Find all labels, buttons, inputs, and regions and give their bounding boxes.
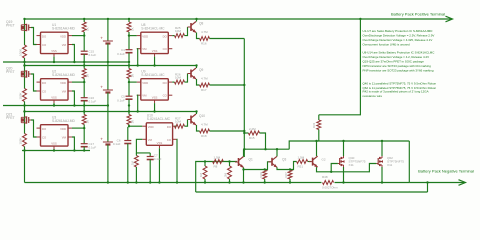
- svg-text:VDD: VDD: [142, 34, 148, 38]
- wire gate line to Q62: [331, 164, 376, 172]
- wire Q40 source: [343, 167, 345, 183]
- wire pack bottom rail: [25, 182, 410, 184]
- resistor R15 2.2M: [244, 132, 248, 134]
- svg-text:R42 is made of 3 paralleled pi: R42 is made of 3 paralleled pieces of 2'…: [363, 90, 429, 94]
- capacitor C3 0.1uF: [81, 143, 88, 145]
- svg-text:+: +: [100, 36, 103, 41]
- wire VM U9 net: [136, 95, 139, 111]
- svg-text:0.1uF: 0.1uF: [113, 142, 121, 146]
- svg-text:0.1uF: 0.1uF: [89, 100, 97, 104]
- wire emitter net to bus Q10: [210, 130, 245, 132]
- svg-text:0.0027Ohm: 0.0027Ohm: [322, 186, 338, 190]
- pin DO U1: [37, 35, 41, 37]
- wire Q1 collector to bus: [243, 149, 245, 156]
- svg-text:0.1uF: 0.1uF: [117, 52, 125, 56]
- pin DO U10: [173, 125, 177, 127]
- wire base jog Q8: [185, 27, 188, 36]
- resistor R31 gate pulldown 100K: [23, 45, 27, 58]
- svg-text:resistance wire: resistance wire: [363, 94, 383, 98]
- wire VDD node U1: [83, 32, 85, 36]
- pin VM U8: [137, 48, 141, 50]
- wire rail2 step join: [24, 62, 26, 66]
- svg-text:VDD: VDD: [148, 125, 154, 129]
- resistor R19 1M: [264, 168, 266, 170]
- svg-text:Overcurrent function (VM) is u: Overcurrent function (VM) is unused: [363, 43, 411, 47]
- pin VDD U1: [68, 35, 72, 37]
- pin CO U10: [173, 138, 177, 140]
- svg-text:1.5M: 1.5M: [298, 156, 305, 160]
- wire DO U10 to base resistor: [175, 125, 177, 127]
- wire DO U9 to base resistor: [172, 81, 174, 83]
- node rail3 right join: [23, 110, 25, 112]
- svg-text:1K: 1K: [130, 74, 134, 78]
- resistor R18 emitter 4.7M: [200, 129, 210, 133]
- wire rail3 step join: [24, 106, 26, 112]
- wire Q62 source: [381, 167, 383, 183]
- svg-text:4.7M: 4.7M: [201, 122, 208, 126]
- wire step to mosfet drain rail: [289, 141, 409, 149]
- svg-text:10M: 10M: [175, 76, 181, 80]
- op-amp U8 protection IC S-8241: [141, 32, 169, 53]
- svg-text:10M: 10M: [175, 120, 181, 124]
- wire VM U8 net: [136, 49, 139, 66]
- wire rail2 left segment: [3, 61, 130, 63]
- wire left drop to bottom rail: [24, 151, 26, 183]
- svg-text:+: +: [100, 85, 103, 90]
- wire Q1 emitter down: [243, 168, 245, 183]
- wire VDD node to cap U3: [83, 128, 85, 144]
- resistor R23 base 10M: [175, 124, 185, 128]
- op-amp U2 protection IC S-8261: [41, 79, 69, 100]
- pin VSS U8: [154, 54, 156, 57]
- wire VM U1 to rail: [72, 45, 74, 63]
- arrow battery pack negative terminal: [409, 182, 464, 184]
- svg-text:R18: R18: [201, 134, 207, 138]
- wire cap C2 to rail: [83, 101, 85, 106]
- svg-text:1K: 1K: [86, 120, 90, 124]
- resistor R3 VDD filter 1K: [83, 112, 85, 115]
- wire divider column join row3: [83, 106, 85, 112]
- wire to gate driver base: [290, 162, 297, 170]
- svg-text:2M: 2M: [224, 172, 228, 177]
- pin VDD U2: [68, 81, 72, 83]
- wire VDD node U10: [128, 125, 130, 127]
- svg-text:VM: VM: [62, 90, 67, 94]
- wire CO U10 net: [176, 139, 178, 182]
- transistor Q8 NPN: [190, 23, 192, 31]
- svg-text:X11: X11: [349, 163, 355, 167]
- wire rail2 right segment: [25, 65, 198, 67]
- resistor R23 VM filter: [134, 156, 138, 168]
- svg-text:U1-U7 are Seiko Battery Protec: U1-U7 are Seiko Battery Protection IC S-…: [363, 29, 433, 33]
- wire Q1 emitter branch: [244, 169, 265, 171]
- svg-text:4.7M: 4.7M: [201, 30, 208, 34]
- svg-text:100K: 100K: [19, 49, 23, 56]
- svg-text:VSS: VSS: [157, 141, 163, 145]
- wire driver collector line: [244, 148, 289, 150]
- wire emitter net to bus Q8: [210, 38, 245, 40]
- wire drain rail down to negative terminal: [408, 141, 410, 183]
- svg-text:10M: 10M: [175, 29, 181, 33]
- wire Q40 gate feed: [331, 164, 338, 172]
- wire to Q3 base: [265, 162, 271, 170]
- wire VSS U9 to rail: [154, 103, 156, 111]
- pin DO U2: [37, 81, 41, 83]
- node bus R15 tap: [243, 132, 245, 134]
- wire Q40 drain: [343, 141, 345, 156]
- svg-text:Q9: Q9: [199, 68, 203, 72]
- svg-text:R51: R51: [298, 164, 304, 168]
- wire PFET source stub Q19: [24, 19, 26, 32]
- transistor Q9 NPN: [190, 70, 192, 78]
- wire Q3 collector: [276, 149, 278, 156]
- transistor Q19 PFET: [26, 24, 28, 31]
- svg-text:R48: R48: [322, 175, 328, 179]
- wire divider column join row2: [83, 62, 85, 66]
- svg-text:R27: R27: [284, 172, 288, 178]
- transistor Q10 NPN: [190, 116, 192, 124]
- wire Q2 collector to drain rail: [316, 141, 318, 156]
- battery B3 cell: [107, 106, 109, 143]
- arrow battery pack positive terminal: [446, 16, 453, 22]
- wire base jog Q9: [185, 74, 188, 83]
- svg-text:+: +: [100, 137, 103, 142]
- svg-text:Q8: Q8: [199, 21, 203, 25]
- wire VSS U10 to rail: [158, 148, 160, 182]
- pin VM U10: [142, 138, 146, 140]
- wire divider block feed: [196, 162, 237, 193]
- svg-text:VDD: VDD: [60, 34, 66, 38]
- wire cap C3 to rail: [83, 147, 85, 151]
- svg-text:1K: 1K: [86, 74, 90, 78]
- svg-text:R19: R19: [259, 172, 263, 178]
- resistor R48 shunt 0.0027Ohm: [322, 180, 335, 186]
- svg-text:G2: G2: [322, 157, 326, 161]
- wire emitter Q8: [197, 33, 200, 39]
- wire pulldown to rail: [24, 102, 26, 106]
- svg-text:Q3: Q3: [282, 158, 286, 162]
- svg-text:X11: X11: [387, 163, 393, 167]
- svg-text:VDD: VDD: [60, 81, 66, 85]
- wire sense bus vertical: [243, 39, 245, 158]
- svg-text:R15: R15: [249, 136, 255, 140]
- svg-text:0.1uF: 0.1uF: [117, 98, 125, 102]
- svg-text:0.1uF: 0.1uF: [89, 53, 97, 57]
- svg-text:0.1uF: 0.1uF: [89, 146, 97, 150]
- wire pack positive rail: [25, 18, 453, 20]
- wire Q3 emitter: [277, 167, 290, 169]
- wire PFET gate net Q19: [31, 28, 37, 45]
- svg-text:Q1: Q1: [249, 158, 253, 162]
- svg-text:NPN transistor are SOT23 packa: NPN transistor are SOT23 package with t0…: [363, 64, 432, 68]
- pin CO U8: [168, 48, 172, 50]
- resistor R22 base 10M: [175, 80, 185, 84]
- wire collector Q9 to rail: [196, 66, 198, 69]
- wire emitter net to bus Q9: [210, 84, 245, 86]
- svg-text:4.7M: 4.7M: [201, 76, 208, 80]
- wire cap C1 to rail: [83, 54, 85, 62]
- wire pulldown to rail: [24, 147, 26, 151]
- pin DO U9: [168, 81, 172, 83]
- svg-text:S-8241ACL-MC: S-8241ACL-MC: [147, 117, 171, 121]
- svg-text:VM: VM: [142, 94, 147, 98]
- svg-text:PNP transistor are SOT23 packa: PNP transistor are SOT23 package with 3Y…: [363, 69, 434, 73]
- wire return jog to terminal: [427, 183, 429, 193]
- wire VSS U1 to rail: [53, 57, 55, 62]
- svg-text:PFET: PFET: [6, 70, 15, 74]
- svg-text:VSS: VSS: [152, 96, 158, 100]
- capacitor C2 0.1uF: [81, 97, 88, 99]
- svg-text:1K: 1K: [130, 120, 134, 124]
- resistor R12 VDD filter 1K (second IC): [128, 66, 130, 69]
- svg-text:1.5M: 1.5M: [214, 156, 221, 160]
- wire VM U2 to rail: [72, 91, 74, 106]
- wire PFET source stub Q21: [24, 112, 26, 125]
- op-amp U1 protection IC S-8261: [41, 32, 69, 53]
- wire VDD node U2: [83, 79, 85, 83]
- svg-text:S-8241ACL-MC: S-8241ACL-MC: [141, 73, 165, 77]
- wire base jog Q10: [185, 120, 188, 127]
- svg-text:1K: 1K: [86, 27, 90, 31]
- capacitor C11 0.1uF (second IC): [128, 36, 130, 50]
- op-amp U3 protection IC S-8261: [41, 125, 69, 146]
- resistor R21 base 10M: [175, 34, 185, 38]
- wire VSS U8 to rail: [154, 57, 156, 66]
- wire emitter Q10: [197, 125, 200, 131]
- svg-text:0.1uF: 0.1uF: [154, 157, 162, 161]
- pin DO U8: [168, 35, 172, 37]
- svg-text:PFET: PFET: [6, 23, 15, 27]
- wire base R to Q2: [308, 161, 311, 163]
- wire R15 to gate line: [260, 133, 266, 149]
- wire return line lower: [196, 191, 428, 193]
- transistor Q20 PFET: [26, 70, 28, 77]
- pin VSS U3: [53, 146, 55, 149]
- pin VM U3: [68, 136, 72, 138]
- svg-text:1M: 1M: [131, 160, 135, 165]
- capacitor C12 0.1uF (second IC): [128, 82, 130, 96]
- svg-text:VSS: VSS: [51, 96, 57, 100]
- transistor Q62 NMOS STP75NF75: [376, 163, 378, 165]
- op-amp U10 protection IC S-8241: [146, 123, 172, 146]
- svg-text:100K: 100K: [19, 137, 23, 144]
- svg-text:VSS: VSS: [51, 49, 57, 53]
- svg-text:Q40 is 11 paralleled STP75NF75: Q40 is 11 paralleled STP75NF75, 75 V 9.5…: [363, 82, 437, 86]
- svg-text:PFET: PFET: [6, 116, 15, 120]
- svg-text:1M: 1M: [199, 172, 203, 177]
- wire VDD node U3: [83, 125, 85, 129]
- wire VM U10 net: [136, 139, 150, 153]
- svg-text:VDD: VDD: [60, 127, 66, 131]
- pin DO U3: [37, 127, 41, 129]
- pin VM U1: [68, 44, 72, 46]
- node rail2 right join: [23, 64, 25, 66]
- wire DO U8 to base resistor: [172, 35, 174, 37]
- wire PFET gate net Q20: [31, 74, 37, 91]
- wire VDD node to cap U1: [83, 36, 85, 52]
- svg-text:VSS: VSS: [51, 142, 57, 146]
- resistor R51 1.5M gate driver base: [297, 160, 308, 164]
- svg-text:OverCharge Detection Voltage =: OverCharge Detection Voltage = 4.325, Re…: [363, 38, 433, 42]
- resistor R1 VDD filter 1K: [83, 19, 85, 22]
- resistor R17 emitter 4.7M: [200, 83, 210, 87]
- wire PFET gate net Q21: [31, 120, 37, 137]
- wire VSS U3 to rail: [53, 149, 55, 150]
- svg-text:S-8261AAJ-MD: S-8261AAJ-MD: [52, 73, 76, 77]
- wire PFET drain to pulldown Q19: [24, 32, 26, 45]
- pin VSS U1: [53, 54, 55, 57]
- svg-text:Battery Pack Negative Terminal: Battery Pack Negative Terminal: [418, 169, 474, 174]
- resistor R16 emitter 4.7M: [200, 37, 210, 41]
- svg-text:R17: R17: [201, 88, 207, 92]
- pin VSS U10: [158, 145, 160, 148]
- resistor R10 2M divider: [229, 162, 231, 167]
- pin VSS U2: [53, 100, 55, 103]
- transistor Q21 PFET: [26, 116, 28, 123]
- svg-text:100K: 100K: [19, 92, 23, 99]
- wire VSS U2 to rail: [53, 103, 55, 105]
- svg-text:VM: VM: [142, 47, 147, 51]
- pin CO U2: [37, 90, 41, 92]
- wire PFET drain to pulldown Q21: [24, 125, 26, 134]
- resistor R9 1M divider: [204, 162, 206, 167]
- pin VM U9: [137, 94, 141, 96]
- wire pulldown to rail: [24, 58, 26, 62]
- svg-text:2.2M: 2.2M: [249, 127, 256, 131]
- svg-text:1K: 1K: [130, 27, 134, 31]
- pin CO U1: [37, 44, 41, 46]
- resistor R8 1.5M series: [213, 160, 224, 164]
- wire PFET source stub Q20: [24, 66, 26, 79]
- wire VDD node to cap U2: [83, 82, 85, 98]
- wire VM U3 to rail: [72, 137, 74, 151]
- svg-text:VM: VM: [148, 138, 153, 142]
- pin VM U2: [68, 90, 72, 92]
- capacitor C13 0.1uF (second IC): [127, 127, 129, 141]
- op-amp U9 protection IC S-8241: [141, 79, 169, 100]
- wire PFET drain to pulldown Q20: [24, 79, 26, 89]
- svg-text:R33: R33: [312, 122, 316, 128]
- svg-text:R16: R16: [201, 41, 207, 45]
- svg-text:S-8241ACL-MC: S-8241ACL-MC: [141, 27, 165, 31]
- pin VDD U3: [68, 127, 72, 129]
- wire Q62 drain: [381, 141, 383, 156]
- transistor Q1 NPN driver: [238, 158, 240, 166]
- svg-text:VSS: VSS: [152, 49, 158, 53]
- svg-text:Battery Pack Positive Terminal: Battery Pack Positive Terminal: [391, 11, 445, 16]
- transistor Q3 NPN driver: [271, 158, 273, 166]
- svg-text:S-8261AAJ-MD: S-8261AAJ-MD: [52, 119, 76, 123]
- resistor R2 VDD filter 1K: [83, 66, 85, 69]
- capacitor C1 0.1uF: [81, 50, 88, 52]
- svg-text:Q19-Q25 are 37mOhm PFET in SOI: Q19-Q25 are 37mOhm PFET in SOIC package: [363, 60, 425, 64]
- resistor R33 gate pulldown 100K: [23, 134, 27, 147]
- wire collector Q10 to rail: [196, 112, 198, 115]
- battery B1 cell: [107, 19, 109, 41]
- svg-text:U8-U14 are Seiko Battery Prote: U8-U14 are Seiko Battery Protection IC S…: [363, 51, 436, 55]
- pin VSS U9: [154, 100, 156, 103]
- capacitor C7 VM filter: [149, 153, 151, 157]
- wire emitter Q9: [197, 79, 200, 85]
- wire VDD node U8: [128, 32, 130, 36]
- pin CO U3: [37, 136, 41, 138]
- wire collector Q8 to rail: [196, 19, 198, 22]
- transistor Q40 NMOS STP75NF75: [338, 163, 340, 165]
- resistor R13 VDD filter 1K (second IC): [128, 112, 130, 115]
- resistor R11 VDD filter 1K (second IC): [128, 19, 130, 22]
- wire rail4 left-cells bottom: [22, 150, 90, 152]
- transistor Q2 NPN gate driver: [312, 158, 314, 166]
- resistor R32 gate pulldown 100K: [23, 89, 27, 102]
- pin CO U9: [168, 94, 172, 96]
- svg-text:VDD: VDD: [142, 81, 148, 85]
- wire VDD node U9: [128, 79, 130, 83]
- svg-text:Q10: Q10: [199, 114, 205, 118]
- resistor R33 pack pullup: [318, 115, 320, 120]
- battery B2 cell: [107, 62, 109, 90]
- wire rail3 left segment: [3, 105, 109, 107]
- svg-text:VM: VM: [62, 136, 67, 140]
- svg-text:VM: VM: [62, 43, 67, 47]
- svg-text:S-8261AAJ-MD: S-8261AAJ-MD: [52, 27, 76, 31]
- resistor R27 1.5M: [289, 168, 291, 170]
- wire pack positive to R33: [319, 19, 361, 115]
- wire rail3 right segment: [25, 111, 198, 113]
- wire Q2 emitter to gates: [317, 167, 332, 172]
- svg-text:OverDischarge Detection Voltag: OverDischarge Detection Voltage = 2.5V, …: [363, 34, 435, 38]
- svg-text:R8: R8: [214, 164, 218, 168]
